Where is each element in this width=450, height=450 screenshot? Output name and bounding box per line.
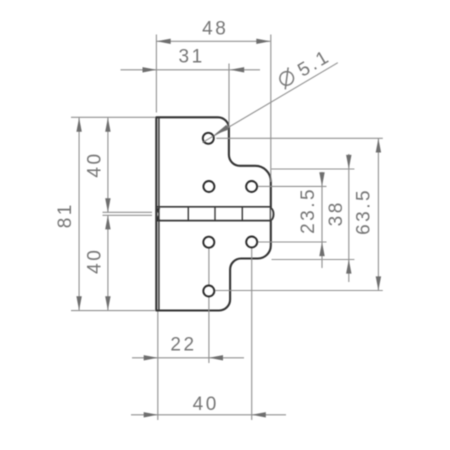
dimension 63.5 line xyxy=(377,138,379,290)
extension line 23.5 top (y=186.4) xyxy=(258,185,326,187)
svg-text:40: 40 xyxy=(193,394,219,415)
dimension 31 line xyxy=(121,69,261,71)
dimension 38 line xyxy=(348,154,350,282)
dimension 22 right arrow (outside) xyxy=(209,355,223,360)
dimension 38 top arrow (outside) xyxy=(346,155,351,169)
extension line 23.5 bottom (y=242) xyxy=(258,241,326,243)
dimension 22 line xyxy=(132,357,244,359)
extension line for 31 dim (x=229) xyxy=(228,64,230,128)
extension line left below part (x=157.8) xyxy=(157,312,159,421)
extension line 40 right (x=251.7) xyxy=(251,248,253,420)
dimension 81 line xyxy=(78,118,80,311)
hole lower-left xyxy=(203,237,214,248)
extension line 22 right (x=208.9) through bottom hole xyxy=(208,249,210,285)
dimension 40 bottom line xyxy=(131,414,286,416)
dimension 38 bottom arrow (outside) xyxy=(346,260,351,274)
dimension 40 bottom right arrow (outside) xyxy=(252,412,266,417)
hole top (31/5.1) xyxy=(203,133,214,144)
dimension 40 lower-left line xyxy=(107,215,109,310)
knuckle band top line xyxy=(156,206,270,208)
extension line bottom-left horizontal (y=310.6) xyxy=(71,310,155,312)
extension line 63.5 top (y=138.3) xyxy=(216,137,382,139)
dimension 40 upper-left top arrow xyxy=(105,118,110,132)
hole lower-right xyxy=(246,237,257,248)
knuckle divider 3 xyxy=(241,207,243,221)
extension line left of 48/31 dims (top, x=156.4) xyxy=(155,35,157,113)
extension line 38 top (y=169) xyxy=(272,168,355,170)
dimension 23.5 bottom arrow (outside) xyxy=(319,242,324,256)
svg-text:63.5: 63.5 xyxy=(353,188,374,235)
svg-text:23.5: 23.5 xyxy=(298,187,319,234)
svg-text:38: 38 xyxy=(326,200,347,226)
extension line top-left horizontal (y=117.3) xyxy=(71,116,155,118)
knuckle divider 2 xyxy=(214,207,216,221)
diameter symbol and 5.1 text (rotated along leader) xyxy=(276,46,334,92)
leader line for hole diameter xyxy=(203,63,338,143)
extension line 63.5 bottom (y=290.5) xyxy=(215,290,382,292)
svg-text:81: 81 xyxy=(55,202,76,228)
dimension 48 right arrow xyxy=(256,39,270,44)
dimension 40 bottom left arrow (outside) xyxy=(144,412,158,417)
leader line segment through top hole xyxy=(204,136,214,142)
dimension 40 lower-left top arrow xyxy=(105,215,110,229)
svg-text:40: 40 xyxy=(85,151,106,177)
svg-text:22: 22 xyxy=(170,335,196,356)
hole middle-left xyxy=(203,181,214,192)
dimension 48 line xyxy=(156,40,270,42)
knuckle divider 1 xyxy=(187,207,189,221)
dimension 81 bottom arrow xyxy=(76,296,81,310)
extension line right of 48 dim (x=270.8) xyxy=(270,35,272,183)
dimension 23.5 top arrow (outside) xyxy=(319,172,324,186)
hinge pin left cap (bowtie) xyxy=(156,208,160,213)
svg-text:40: 40 xyxy=(85,248,106,274)
dimension 48 left arrow xyxy=(157,39,171,44)
dimension 40 lower-left bottom arrow xyxy=(105,296,110,310)
leader arrow at hole edge xyxy=(214,125,229,135)
dimension 40 upper-left line xyxy=(107,118,109,213)
extension line 38 bottom (y=259.5) xyxy=(272,259,355,261)
extension line middle gap upper (y=212.3) xyxy=(103,211,153,213)
hole middle-right xyxy=(246,181,257,192)
extension line middle gap lower (y=215.3) xyxy=(103,214,153,216)
dimension 81 top arrow xyxy=(76,118,81,132)
svg-text:31: 31 xyxy=(179,46,205,67)
dimension 22 left arrow (outside) xyxy=(144,355,158,360)
dimension 63.5 top arrow xyxy=(376,139,381,153)
dimension 40 upper-left bottom arrow xyxy=(105,198,110,212)
svg-text:48: 48 xyxy=(202,19,228,40)
leaf inner fold line (left double edge) xyxy=(158,118,160,310)
dimension 31 right arrow (outside) xyxy=(230,67,244,72)
hole bottom (22) xyxy=(203,286,214,297)
dimension 23.5 line xyxy=(321,172,323,268)
knuckle band bottom line xyxy=(156,220,270,222)
dimension 63.5 bottom arrow xyxy=(376,276,381,290)
dimension 31 left arrow (outside) xyxy=(143,67,157,72)
hinge pin right cap xyxy=(271,208,274,220)
hinge leaf outline xyxy=(156,117,270,310)
